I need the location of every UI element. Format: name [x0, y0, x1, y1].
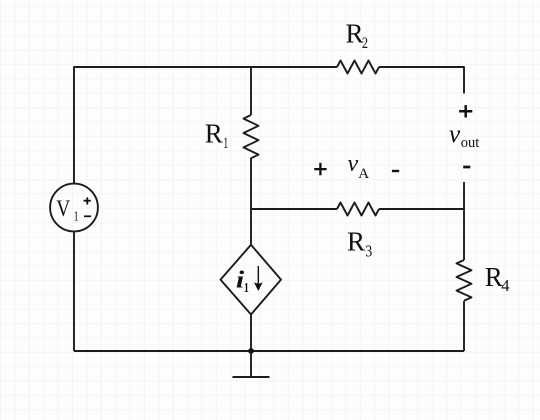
voltage source V1	[50, 184, 98, 232]
vA plus sign	[314, 163, 326, 175]
label R1	[205, 118, 228, 152]
wire: top rail right segment (R2 to top-right corner, down to vout +)	[379, 67, 464, 94]
resistor R2	[337, 61, 379, 74]
label vout	[449, 121, 479, 151]
svg-text:1: 1	[74, 208, 79, 223]
i1 arrow (downward)	[254, 266, 263, 291]
wire: middle branch lower (i1 bottom to ground node)	[250, 315, 252, 352]
svg-text:R: R	[347, 227, 365, 257]
svg-text:4: 4	[501, 276, 509, 295]
svg-text:2: 2	[362, 35, 368, 52]
svg-text:v: v	[348, 151, 359, 177]
resistor R1	[244, 115, 259, 158]
svg-text:A: A	[358, 166, 369, 182]
ground node junction dot	[248, 348, 254, 354]
wire: middle branch (R1 bottom through node A junction to i1 top)	[250, 158, 252, 245]
dependent current source i1 (diamond)	[221, 245, 282, 315]
wire: bottom rail	[74, 350, 464, 352]
wire: node A horizontal, R1/i1 column to R3	[251, 208, 337, 210]
label V1	[56, 196, 78, 223]
wire: middle branch upper (top rail down to R1)	[250, 67, 252, 115]
svg-text:out: out	[461, 135, 480, 151]
svg-text:R: R	[485, 262, 503, 292]
wire: R3 to right rail	[379, 208, 464, 210]
label R4	[485, 262, 510, 295]
V1 plus polarity mark	[84, 197, 91, 204]
svg-text:1: 1	[244, 280, 249, 295]
vout plus sign	[459, 105, 472, 117]
resistor R3	[337, 203, 379, 216]
svg-text:R: R	[205, 118, 223, 148]
wire: left rail lower segment (V1 to bottom-left corner)	[73, 232, 75, 352]
wire: top rail left segment (node top-left to R2)	[74, 67, 337, 184]
label i1	[236, 267, 249, 295]
vA minus sign	[392, 170, 399, 172]
label R3	[347, 227, 372, 261]
ground stub wire	[250, 351, 252, 377]
ground symbol bar	[233, 376, 270, 378]
wire: right rail from vout minus down through R4 junction	[463, 182, 465, 260]
resistor R4	[457, 260, 472, 301]
svg-text:3: 3	[365, 241, 372, 260]
label R2	[346, 19, 369, 52]
svg-text:v: v	[449, 121, 461, 148]
svg-text:V: V	[56, 196, 70, 221]
svg-text:R: R	[346, 19, 364, 49]
V1 minus polarity mark	[84, 215, 91, 217]
vout minus sign	[463, 166, 470, 169]
wire: R4 bottom to bottom-right corner	[463, 301, 465, 351]
label vA	[348, 151, 370, 182]
svg-text:1: 1	[223, 135, 228, 152]
